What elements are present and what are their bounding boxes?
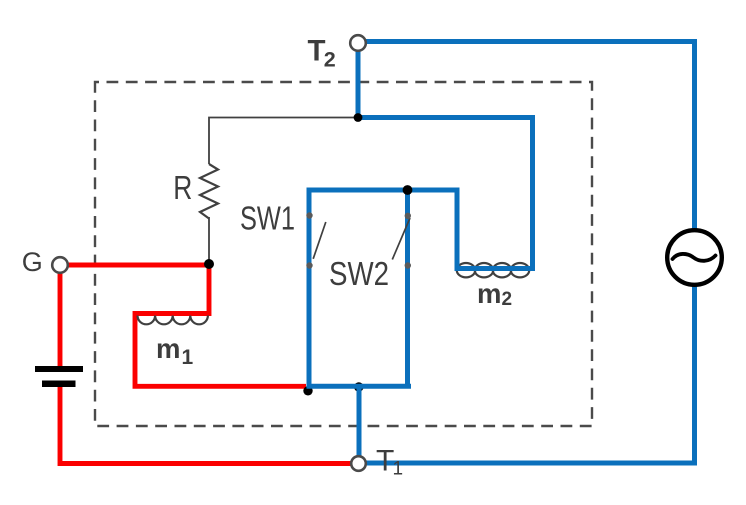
- svg-text:SW2: SW2: [329, 255, 389, 292]
- svg-text:2: 2: [324, 47, 336, 71]
- svg-text:1: 1: [182, 346, 194, 369]
- svg-text:SW1: SW1: [240, 199, 295, 236]
- svg-text:R: R: [173, 170, 192, 206]
- svg-text:m: m: [156, 333, 180, 364]
- svg-text:m: m: [477, 278, 501, 309]
- svg-text:1: 1: [393, 458, 404, 479]
- svg-text:2: 2: [502, 289, 513, 310]
- svg-text:G: G: [22, 247, 43, 277]
